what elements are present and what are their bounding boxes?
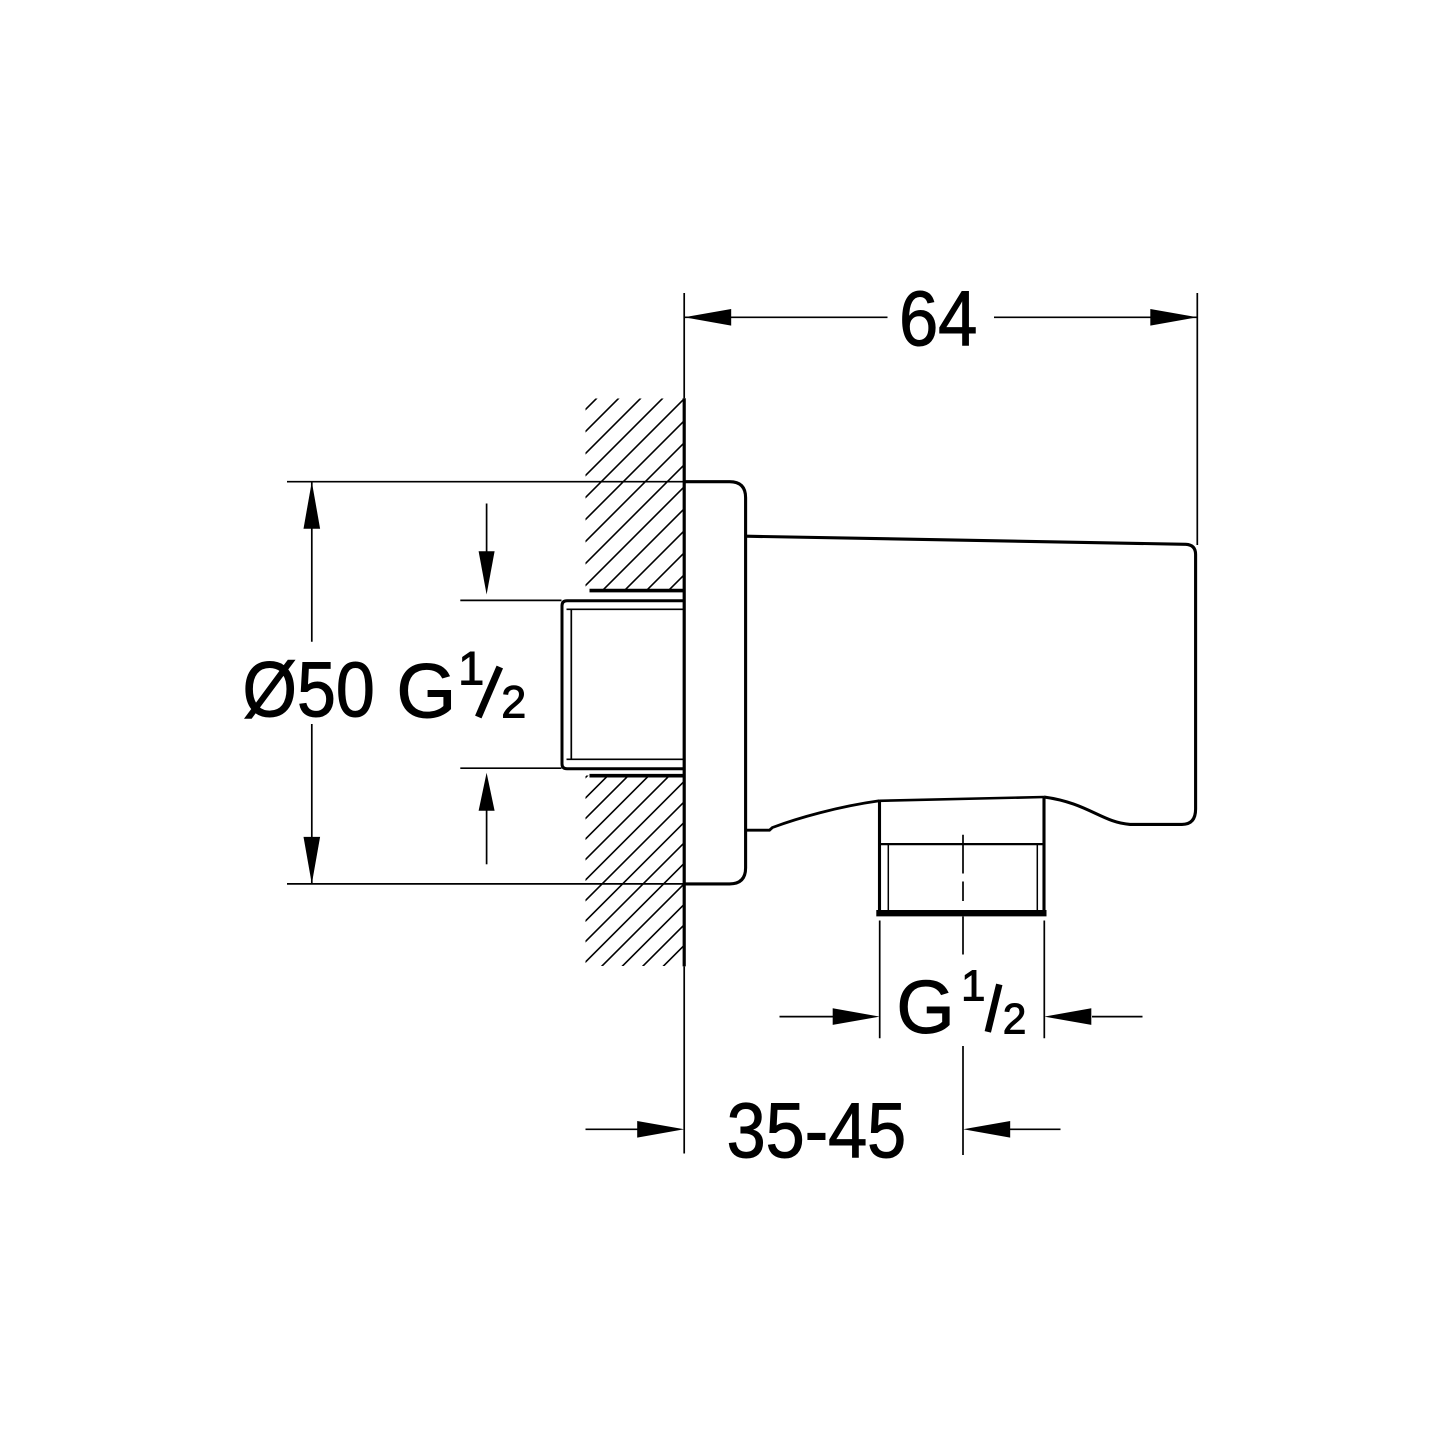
svg-text:1: 1 — [961, 962, 985, 1011]
svg-text:Ø50: Ø50 — [243, 645, 375, 733]
svg-text:35-45: 35-45 — [727, 1086, 907, 1174]
svg-text:1: 1 — [458, 641, 484, 694]
svg-text:G: G — [896, 965, 954, 1049]
svg-text:G: G — [396, 649, 456, 735]
svg-text:64: 64 — [899, 274, 978, 362]
svg-text:2: 2 — [1003, 997, 1027, 1044]
svg-text:2: 2 — [501, 677, 526, 728]
